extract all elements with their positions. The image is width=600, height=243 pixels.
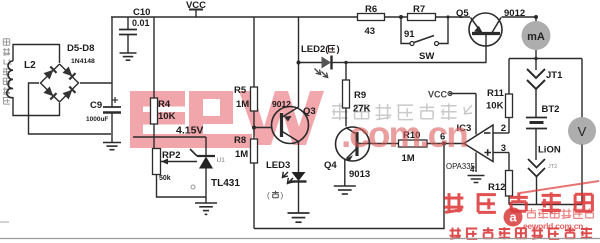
shunt regulator U1 TL431 bbox=[190, 137, 240, 203]
node VCC rail junction R6-R7 bbox=[399, 15, 403, 19]
svg-text:43: 43 bbox=[365, 26, 376, 37]
transistor Q4 9013 bbox=[324, 127, 399, 186]
svg-text:91: 91 bbox=[404, 29, 415, 40]
svg-text:9013: 9013 bbox=[349, 169, 370, 180]
svg-text:R6: R6 bbox=[365, 4, 377, 15]
svg-text:(: ( bbox=[267, 191, 270, 200]
svg-text:0.01: 0.01 bbox=[132, 18, 150, 28]
svg-text:1N4148: 1N4148 bbox=[71, 58, 95, 65]
svg-text:D5-D8: D5-D8 bbox=[67, 43, 94, 54]
svg-text:1M: 1M bbox=[236, 99, 249, 110]
ground IC3 bbox=[468, 176, 485, 183]
node meter junction bbox=[509, 57, 582, 60]
svg-text:10K: 10K bbox=[486, 101, 504, 112]
diode bridge D5-D8 1N4148 bbox=[41, 43, 96, 102]
node 4.15V bbox=[133, 125, 206, 138]
resistor R7 91 bbox=[404, 4, 436, 40]
svg-text:10K: 10K bbox=[158, 111, 176, 122]
svg-text:a: a bbox=[509, 210, 517, 225]
resistor R12 bbox=[488, 153, 513, 205]
wire battery bottom loop bbox=[509, 204, 582, 206]
led LED3 green bbox=[266, 160, 307, 213]
ground Q4 bbox=[334, 186, 356, 194]
meter mA bbox=[522, 17, 551, 59]
svg-text:R8: R8 bbox=[234, 135, 246, 146]
svg-text:.com.cn: .com.cn bbox=[341, 114, 467, 155]
label LiON bbox=[538, 145, 561, 156]
svg-text:1000uF: 1000uF bbox=[86, 116, 108, 123]
resistor R4 10K bbox=[151, 17, 176, 149]
resistor R6 43 bbox=[358, 4, 385, 37]
wire L2 top to bridge bbox=[13, 45, 60, 64]
resistor R10 1M bbox=[399, 130, 428, 164]
svg-text:JT1: JT1 bbox=[546, 70, 563, 81]
svg-text:2: 2 bbox=[501, 123, 506, 134]
connector JT2 bbox=[528, 159, 557, 205]
wire bridge left vertex to ground rail bbox=[29, 83, 112, 134]
svg-text:27K: 27K bbox=[353, 104, 371, 115]
wire feedback bottom bbox=[254, 144, 444, 229]
node Q3 base junction bbox=[252, 126, 273, 130]
svg-text:V: V bbox=[578, 124, 587, 139]
wire bridge right vertex to VCC column bbox=[80, 17, 112, 107]
svg-text:3: 3 bbox=[501, 143, 506, 154]
svg-text:BT2: BT2 bbox=[542, 104, 560, 115]
wire top VCC rail bbox=[111, 16, 536, 18]
battery BT2 bbox=[526, 104, 559, 160]
svg-text:): ) bbox=[281, 191, 284, 200]
svg-text:4: 4 bbox=[470, 165, 475, 174]
svg-text:VCC: VCC bbox=[428, 90, 448, 100]
transistor Q5 9012 bbox=[456, 8, 525, 63]
node pin6 junction bbox=[427, 132, 464, 146]
svg-text:RP2: RP2 bbox=[162, 150, 180, 161]
svg-text:R12: R12 bbox=[488, 182, 505, 193]
op-amp IC3 OPA335 bbox=[428, 90, 509, 175]
svg-text:9012: 9012 bbox=[272, 99, 291, 109]
svg-text:LiON: LiON bbox=[538, 145, 561, 156]
capacitor C9 1000uF bbox=[86, 97, 121, 134]
resistor R8 1M bbox=[234, 128, 258, 229]
svg-text:4.15V: 4.15V bbox=[176, 125, 203, 137]
ground main (below C9) bbox=[103, 134, 121, 150]
transistor Q3 9012 bbox=[272, 63, 316, 168]
svg-text:SW: SW bbox=[419, 51, 434, 62]
wire RP2 bottom bbox=[157, 175, 207, 198]
svg-text:1M: 1M bbox=[235, 149, 248, 160]
svg-text:LED2(: LED2( bbox=[301, 44, 329, 55]
svg-text:R4: R4 bbox=[158, 99, 171, 110]
svg-text:U1: U1 bbox=[217, 157, 226, 164]
ground LED3 bbox=[288, 213, 310, 222]
svg-text:JT2: JT2 bbox=[548, 164, 557, 170]
connector JT1 bbox=[527, 59, 563, 118]
node LED2 junction bbox=[297, 17, 301, 65]
svg-text:VCC: VCC bbox=[186, 0, 206, 11]
svg-text:L2: L2 bbox=[24, 60, 36, 71]
resistor R9 27K bbox=[343, 63, 371, 127]
led LED2 red bbox=[299, 44, 347, 78]
svg-text:LED3: LED3 bbox=[266, 160, 290, 171]
resistor R5 1M bbox=[234, 17, 258, 128]
svg-text:9012: 9012 bbox=[504, 8, 525, 19]
svg-text:C10: C10 bbox=[133, 7, 150, 18]
svg-text:R9: R9 bbox=[354, 90, 366, 101]
ground C10 bbox=[120, 53, 137, 60]
inductor L2 bbox=[7, 60, 36, 98]
ground TL431 bbox=[195, 203, 217, 214]
svg-text:R7: R7 bbox=[413, 4, 425, 15]
svg-text:mA: mA bbox=[527, 31, 545, 43]
capacitor C10 bbox=[119, 7, 150, 53]
svg-text:C9: C9 bbox=[90, 100, 102, 111]
potentiometer RP2 50k bbox=[153, 149, 198, 183]
svg-text:Q4: Q4 bbox=[324, 160, 337, 171]
switch SW bbox=[401, 15, 450, 62]
svg-text:R5: R5 bbox=[234, 85, 247, 96]
power VCC bbox=[186, 0, 206, 17]
svg-text:Q5: Q5 bbox=[456, 8, 469, 19]
svg-text:): ) bbox=[337, 44, 340, 55]
svg-text:Q3: Q3 bbox=[303, 106, 316, 117]
svg-text:TL431: TL431 bbox=[211, 178, 240, 189]
resistor R11 10K bbox=[486, 59, 513, 134]
decorative watermark overlay bbox=[0, 114, 600, 239]
svg-text:50k: 50k bbox=[159, 175, 171, 182]
svg-text:R11: R11 bbox=[487, 88, 505, 99]
meter V bbox=[568, 59, 596, 205]
wire LED2 to Q5 base bbox=[344, 61, 486, 64]
node VCC rail junction mA bbox=[534, 15, 538, 19]
wire L2 bottom to bridge bbox=[13, 97, 60, 116]
